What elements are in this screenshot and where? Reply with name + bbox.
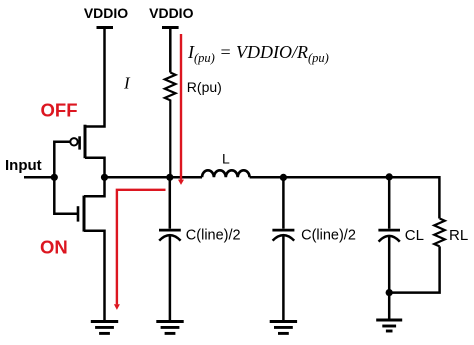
- svg-text:CL: CL: [405, 227, 424, 244]
- svg-text:RL: RL: [449, 227, 468, 244]
- svg-text:VDDIO: VDDIO: [149, 5, 193, 21]
- svg-text:ON: ON: [40, 237, 68, 258]
- svg-text:L: L: [222, 151, 230, 167]
- svg-text:VDDIO: VDDIO: [84, 5, 128, 21]
- svg-text:C(line)/2: C(line)/2: [186, 228, 241, 244]
- svg-text:Input: Input: [5, 157, 42, 174]
- svg-text:R(pu): R(pu): [187, 79, 222, 95]
- svg-text:C(line)/2: C(line)/2: [301, 228, 356, 244]
- svg-text:OFF: OFF: [41, 100, 78, 121]
